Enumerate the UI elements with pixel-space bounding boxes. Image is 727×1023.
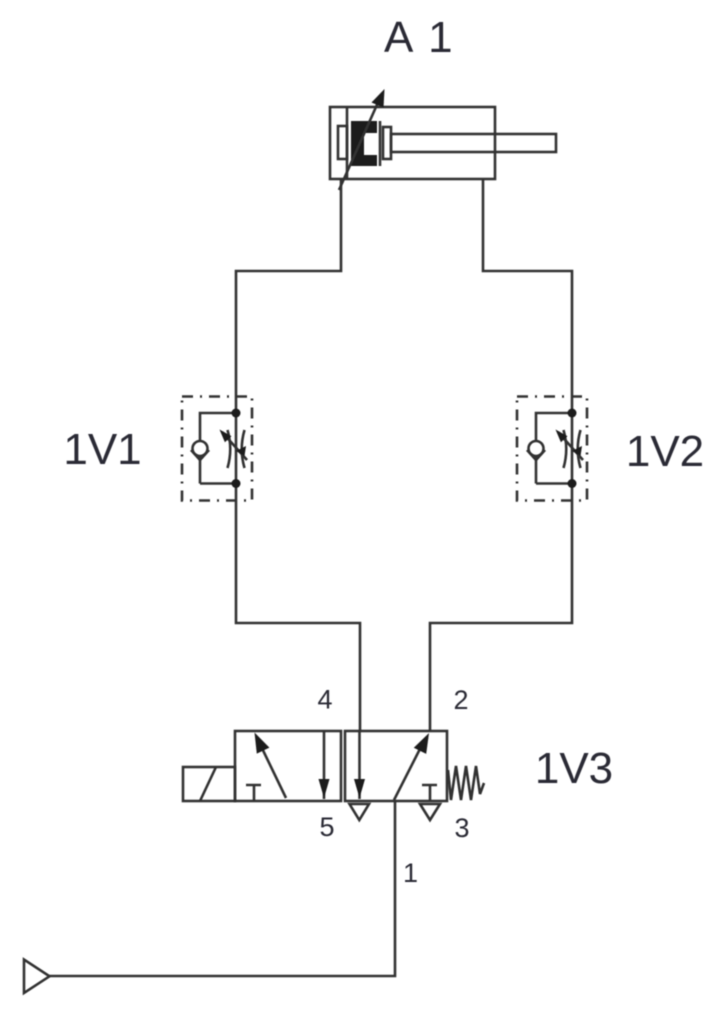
- 1V3 right square blocked port T: [422, 785, 437, 801]
- svg-text:5: 5: [319, 812, 334, 842]
- wire valve port 1 to air supply: [49, 801, 395, 976]
- 1V2 node top: [568, 409, 577, 418]
- valve 1V3 left position square: [235, 731, 341, 801]
- 1V3 left square flow arrow: [259, 742, 286, 798]
- valve 1V3 right position square: [345, 731, 447, 801]
- flow control valve 1V2 enclosure (dash-dot box): [517, 397, 587, 501]
- 1V3 solenoid: [183, 767, 235, 801]
- cylinder cushioning arrow: [339, 98, 380, 190]
- 1V1 node top: [232, 409, 241, 418]
- 1V3 left square down path: [323, 731, 326, 799]
- svg-text:1: 1: [403, 858, 418, 888]
- svg-text:1V1: 1V1: [63, 425, 141, 474]
- 1V3 right square down path (port 4 to 5): [358, 731, 361, 799]
- svg-text:1V2: 1V2: [626, 427, 704, 476]
- 1V1 check valve: [193, 441, 208, 456]
- svg-text:1V3: 1V3: [535, 744, 613, 793]
- cylinder cushion sleeve: [338, 126, 347, 159]
- 1V3 left square blocked port T: [246, 785, 261, 801]
- flow control valve 1V1 enclosure (dash-dot box): [182, 397, 252, 501]
- 1V1 node bottom: [232, 479, 241, 488]
- 1V3 right square flow arrow (1 to 2): [394, 741, 424, 800]
- 1V3 exhaust 5 triangle: [350, 804, 370, 820]
- 1V1 throttle arcs: [228, 430, 245, 468]
- cylinder piston right plate: [379, 121, 382, 166]
- cylinder rod cap: [383, 127, 391, 159]
- 1V3 return spring: [448, 766, 484, 800]
- 1V2 node bottom: [568, 479, 577, 488]
- svg-text:4: 4: [317, 685, 332, 715]
- cylinder A1 body: [330, 107, 495, 179]
- cylinder left cap divider: [346, 107, 349, 179]
- compressed air source: [24, 960, 50, 994]
- svg-text:3: 3: [454, 813, 469, 843]
- 1V2 throttle arcs: [564, 430, 581, 468]
- 1V2 adjustable arrow: [558, 432, 583, 460]
- 1V1 bypass loop wire: [200, 413, 236, 484]
- cylinder piston rod: [391, 134, 556, 152]
- wire cylinder-right to 1V2 to valve port 2: [430, 179, 572, 731]
- svg-text:A 1: A 1: [384, 13, 455, 62]
- 1V3 exhaust 3 triangle: [420, 804, 440, 820]
- 1V2 bypass loop wire: [536, 413, 572, 484]
- wire cylinder-left to 1V1 to valve port 4: [236, 179, 360, 731]
- cylinder piston (black): [351, 121, 377, 166]
- 1V2 check valve: [529, 441, 544, 456]
- svg-text:2: 2: [453, 685, 468, 715]
- 1V1 adjustable arrow: [222, 432, 247, 460]
